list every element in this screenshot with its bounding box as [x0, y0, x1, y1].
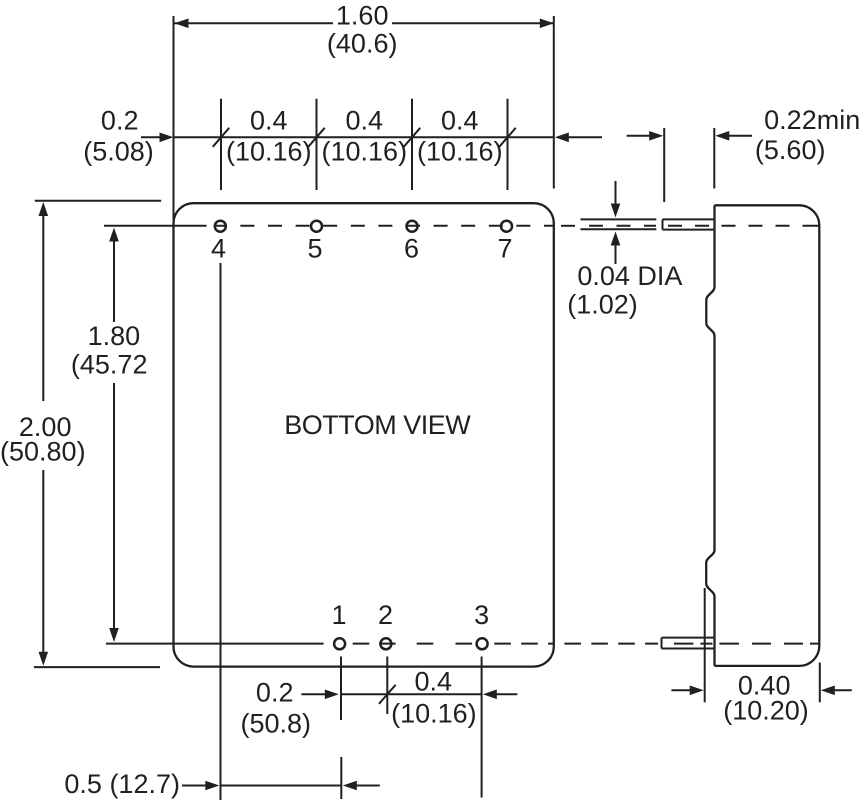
pin 2 — [380, 638, 391, 649]
pin 5 — [311, 221, 322, 232]
svg-text:5: 5 — [307, 234, 322, 264]
svg-text:7: 7 — [497, 234, 512, 264]
bottom centerline dashes inside bottom side-view lead — [674, 643, 712, 645]
chain dim row: leader with right arrowhead at body edge — [141, 136, 161, 138]
package body outline (bottom view) — [174, 203, 554, 666]
side view: left edge with two notches — [706, 205, 714, 666]
top centerline solid segment (pins 4-7 row) — [104, 225, 227, 227]
top centerline dash between body and floating lead — [561, 225, 575, 227]
svg-text:6: 6 — [404, 234, 419, 264]
dim 1.60: right extension line — [553, 16, 555, 189]
chain dim row: closing left arrowhead outside right extension — [555, 133, 569, 143]
dim 0.5: leader with right arrowhead — [182, 785, 206, 787]
dim 0.04 DIA: down arrow — [615, 181, 617, 204]
svg-text:0.4: 0.4 — [250, 106, 288, 136]
svg-text:2: 2 — [378, 600, 393, 630]
pin 3 — [477, 638, 488, 649]
svg-text:1: 1 — [331, 600, 346, 630]
dim 0.40: right arrow pointing left — [821, 686, 835, 696]
dim 0.04 DIA: up arrow — [611, 232, 621, 246]
bottom centerline dashes between body and side view lead — [564, 643, 658, 645]
svg-text:0.04 DIA: 0.04 DIA — [577, 261, 682, 291]
dim 2.00: top extension line — [35, 200, 161, 202]
side view: top, right and bottom edges — [715, 205, 820, 666]
dim 0.5: right outside arrowhead — [343, 781, 357, 791]
top centerline dashes inside body — [240, 225, 554, 227]
bottom dim row: leader with right arrowhead at pin1 column — [301, 693, 325, 695]
svg-text:1.80: 1.80 — [88, 321, 141, 351]
dim 1.60: left extension line — [173, 16, 175, 225]
bottom dim row: pin2 column extension line — [386, 657, 388, 715]
dim 0.5: pin1 column lower extension line — [340, 757, 342, 799]
svg-text:(45.72: (45.72 — [71, 350, 148, 380]
dim 1.60: right arrowhead — [540, 19, 554, 29]
bottom centerline solid segment (pins 1-3 row) — [106, 643, 324, 645]
dim 1.80: dimension line upper — [113, 240, 115, 322]
svg-text:0.4: 0.4 — [441, 106, 479, 136]
svg-text:(10.16): (10.16) — [391, 699, 477, 729]
dim 0.22min: left arrow pointing right — [627, 135, 650, 137]
dim 1.80: dimension line lower — [113, 383, 115, 630]
dim 0.22min: left extension line — [663, 128, 665, 202]
dim 0.5: dimension line — [221, 785, 342, 787]
svg-text:3: 3 — [474, 600, 489, 630]
svg-text:0.2: 0.2 — [256, 677, 294, 707]
pin 1 — [334, 638, 345, 649]
chain dim row: slash tick at pin7 column — [499, 128, 516, 147]
top centerline dashes inside floating lead — [589, 225, 656, 227]
dim 0.5: pin4 column extension line (through body) — [220, 263, 222, 800]
top centerline dashes inside side view body — [722, 225, 819, 227]
bottom dim row: slash tick at pin2 column — [379, 685, 396, 704]
top centerline dashes inside side-view lead — [668, 225, 709, 227]
svg-text:(1.02): (1.02) — [567, 290, 638, 320]
svg-text:(40.6): (40.6) — [327, 29, 398, 59]
dim 0.22min: right extension line — [713, 128, 715, 189]
svg-text:BOTTOM VIEW: BOTTOM VIEW — [284, 410, 471, 440]
svg-text:(5.08): (5.08) — [83, 137, 154, 167]
chain dim row: dimension line — [175, 136, 554, 138]
chain dim row: slash tick at pin5 column — [308, 128, 325, 147]
dim 2.00: dimension line lower — [42, 470, 44, 654]
svg-text:1.60: 1.60 — [336, 1, 389, 31]
dim 2.00: dimension line upper — [42, 214, 44, 401]
svg-text:0.4: 0.4 — [346, 106, 384, 136]
side view: bottom lead — [662, 638, 715, 649]
bottom dim row: dimension line pin1 to pin3 — [341, 693, 482, 695]
pin 7 — [501, 221, 512, 232]
bottom dim row: pin1 column extension line — [340, 657, 342, 721]
svg-text:(10.16): (10.16) — [226, 137, 312, 167]
dim 2.00: bottom extension line — [34, 666, 160, 668]
pin 4 — [215, 221, 226, 232]
side view: top lead — [663, 219, 715, 229]
svg-text:(10.16): (10.16) — [417, 137, 503, 167]
dim 0.40: right extension line — [819, 663, 821, 703]
svg-text:0.5 (12.7): 0.5 (12.7) — [64, 769, 180, 799]
svg-text:0.4: 0.4 — [415, 667, 453, 697]
svg-text:0.22min: 0.22min — [764, 105, 860, 135]
svg-text:(50.8): (50.8) — [241, 708, 312, 738]
dim 0.22min: right arrow pointing left — [715, 131, 729, 141]
bottom dim row: pin3 column extension line — [481, 657, 483, 798]
svg-text:(10.20): (10.20) — [723, 696, 809, 726]
svg-text:4: 4 — [211, 234, 226, 264]
pin 6 — [407, 221, 418, 232]
bottom centerline dashes inside body — [353, 643, 555, 645]
svg-text:(10.16): (10.16) — [322, 137, 408, 167]
svg-text:0.2: 0.2 — [101, 106, 139, 136]
dim 0.40: left arrow pointing right — [671, 689, 691, 691]
bottom dim row: closing left arrowhead at pin3 column — [483, 690, 497, 700]
bottom centerline dashes inside side view body — [719, 643, 818, 645]
dim 1.60: dimension line — [175, 22, 554, 24]
floating lead segment between views — [581, 219, 657, 229]
dim 1.60: left arrowhead — [175, 19, 189, 29]
svg-text:(50.80): (50.80) — [0, 436, 86, 466]
chain dim row: pin column extension lines — [221, 99, 508, 190]
svg-text:(5.60): (5.60) — [755, 135, 826, 165]
chain dim row: slash tick at pin4 column — [213, 128, 230, 147]
chain dim row: slash tick at pin6 column — [404, 128, 421, 147]
dim 0.40: left extension line — [704, 588, 706, 702]
